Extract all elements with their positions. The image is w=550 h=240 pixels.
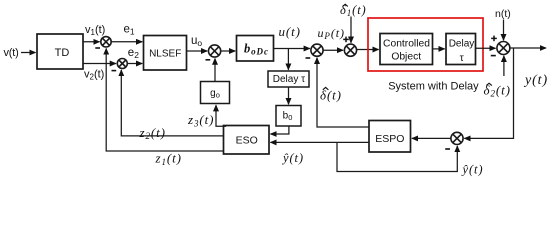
svg-text:v1(t): v1(t) — [85, 24, 105, 37]
block Controlled Object — [380, 34, 433, 65]
svg-text:System with Delay: System with Delay — [388, 81, 479, 93]
wire e2 B to NLSEF — [127, 63, 142, 65]
wire e1 A to NLSEF — [111, 41, 142, 43]
svg-text:e2: e2 — [128, 47, 139, 60]
svg-text:boDc: boDc — [244, 41, 269, 56]
sign minus at D — [306, 57, 311, 59]
wire u0 NLSEF to sum C — [187, 50, 208, 52]
wire Delay red to sum F — [476, 47, 496, 49]
wire Delay to b0 — [288, 87, 290, 104]
wire v1 TD to sum A — [83, 41, 100, 43]
wire yhat ESPO to ESO — [271, 141, 370, 143]
sign minus at B — [112, 70, 117, 72]
sign minus at F — [491, 55, 496, 57]
summing junction A — [101, 37, 111, 47]
svg-text:ESPO: ESPO — [375, 133, 404, 145]
svg-text:δ1(t): δ1(t) — [340, 3, 367, 18]
summing junction D — [311, 44, 323, 56]
svg-text:ESO: ESO — [236, 134, 258, 146]
svg-text:Delay: Delay — [449, 39, 475, 50]
wire feedback branch down right — [464, 48, 513, 138]
svg-text:n(t): n(t) — [495, 8, 511, 20]
wire n(t) stub into F — [503, 20, 505, 41]
svg-text:z2(t): z2(t) — [139, 125, 166, 141]
svg-text:Controlled: Controlled — [383, 38, 430, 49]
svg-text:v2(t): v2(t) — [84, 68, 104, 81]
svg-text:uP(t): uP(t) — [318, 26, 345, 41]
svg-text:z3(t): z3(t) — [187, 112, 214, 128]
svg-text:ŷ(t): ŷ(t) — [461, 162, 484, 176]
svg-text:δ(t): δ(t) — [320, 87, 342, 102]
wire b0 to ESO — [271, 126, 289, 134]
wire yhat branch to G bottom — [337, 142, 457, 171]
wire delta hat ESPO to D — [317, 58, 369, 127]
block Delay tau inner — [268, 71, 309, 87]
wire uP(t) D to sum E — [323, 49, 343, 51]
svg-text:Delay τ: Delay τ — [273, 74, 305, 85]
svg-text:b0: b0 — [283, 110, 293, 122]
block b0 — [276, 106, 301, 127]
svg-text:NLSEF: NLSEF — [149, 48, 181, 59]
wire u(t) b0Dc to sum D — [274, 48, 310, 50]
summing junction G — [451, 132, 463, 144]
wire v(t) input arrow — [21, 52, 36, 54]
block ESO — [224, 126, 270, 155]
svg-text:y(t): y(t) — [523, 73, 548, 88]
block Delay red — [446, 34, 476, 65]
wire delta1 stub into E — [350, 17, 352, 43]
svg-text:δ2(t): δ2(t) — [484, 82, 511, 98]
svg-text:τ: τ — [460, 52, 465, 64]
hat over delta1 — [343, 4, 348, 6]
svg-text:z1(t): z1(t) — [155, 151, 182, 167]
svg-text:u(t): u(t) — [279, 24, 301, 39]
block b0Dc — [237, 36, 274, 62]
svg-text:uo: uo — [191, 35, 202, 48]
sign plus at E — [343, 37, 349, 43]
svg-text:Object: Object — [391, 51, 421, 62]
block ESPO — [369, 121, 411, 153]
summing junction E — [344, 44, 356, 56]
wire delta2 stub into F — [503, 56, 505, 76]
summing junction F — [497, 42, 510, 55]
block TD — [37, 34, 83, 69]
wire v2 TD to sum B — [83, 63, 116, 65]
summing junction B — [117, 59, 127, 69]
wire G to ESPO — [412, 137, 451, 139]
block NLSEF — [144, 36, 187, 71]
summing junction C — [209, 45, 221, 57]
hat over delta — [323, 87, 329, 89]
wire y(t) output — [510, 47, 546, 49]
wire z3 ESO to g0 — [216, 105, 226, 126]
sign minus at A — [95, 47, 100, 49]
svg-text:v(t): v(t) — [4, 47, 19, 59]
sign minus at C — [206, 59, 211, 61]
svg-text:TD: TD — [55, 47, 70, 59]
sign minus at G — [445, 148, 450, 150]
wire C to b0Dc — [221, 50, 236, 52]
sign plus at F — [491, 36, 497, 42]
block g0 — [201, 82, 230, 104]
hat over delta2 — [486, 83, 492, 85]
svg-text:go: go — [210, 88, 220, 100]
svg-text:ŷ(t): ŷ(t) — [281, 151, 304, 165]
wire z1 ESO to A — [106, 49, 223, 152]
wire z2 ESO to B — [121, 70, 223, 136]
wire branch down to Delay tau — [287, 49, 289, 70]
wire g0 to C — [214, 59, 216, 82]
svg-text:e1: e1 — [124, 23, 135, 36]
wire E to Controlled Object — [357, 49, 379, 51]
red box System with Delay — [368, 18, 483, 71]
wire CO to Delay red — [433, 48, 445, 50]
